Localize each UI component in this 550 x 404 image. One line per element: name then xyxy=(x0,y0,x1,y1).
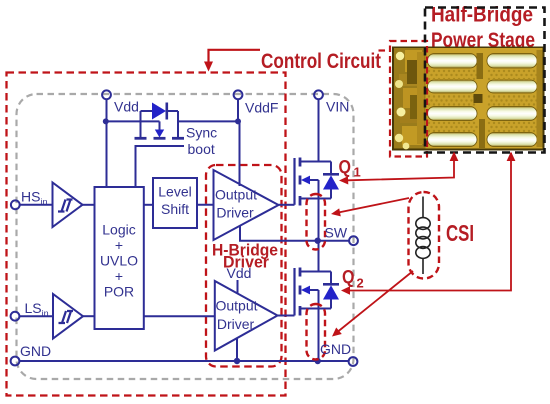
terminal SW xyxy=(349,236,358,245)
svg-text:+: + xyxy=(115,237,123,253)
red dashed H-Bridge Driver box xyxy=(206,165,282,367)
svg-text:Level: Level xyxy=(158,184,191,200)
block U1 Logic+UVLO+POR xyxy=(95,187,144,329)
svg-text:Control Circuit: Control Circuit xyxy=(261,50,381,73)
wire HSin xyxy=(19,204,53,206)
svg-text:2: 2 xyxy=(357,276,364,291)
transistor sync boot MOSFET xyxy=(135,121,185,187)
node SW junction xyxy=(315,238,321,244)
arrow control circuit pointer xyxy=(209,50,261,62)
red dashed CSI box xyxy=(409,192,440,279)
svg-text:Vdd: Vdd xyxy=(114,99,139,115)
terminal VIN xyxy=(314,90,323,99)
red dashed sense box Q1 source xyxy=(307,194,326,250)
svg-text:CSI: CSI xyxy=(446,220,474,246)
transistor Q1 MOSFET xyxy=(279,99,340,241)
wire LS buffer to logic xyxy=(83,315,95,317)
left die strip xyxy=(394,48,426,149)
wire Vdd rail xyxy=(106,120,160,122)
wire logic to level shift xyxy=(144,204,153,206)
svg-text:+: + xyxy=(115,268,123,284)
svg-text:Output: Output xyxy=(215,187,257,203)
photo half-bridge die xyxy=(392,47,545,151)
op-amp bottom output driver xyxy=(215,281,278,351)
terminal HSin xyxy=(11,200,20,209)
wire VddF to top driver xyxy=(239,121,241,186)
svg-text:boot: boot xyxy=(188,141,215,157)
node Vdd junction xyxy=(103,118,109,124)
svg-text:UVLO: UVLO xyxy=(100,253,138,269)
svg-text:Logic: Logic xyxy=(102,222,135,238)
svg-text:Vdd: Vdd xyxy=(227,265,252,281)
buffer HS schmitt trigger xyxy=(53,183,83,228)
wire VddF rail xyxy=(178,120,238,122)
black dashed box power stage xyxy=(425,8,545,153)
wire top driver bottom to SW xyxy=(240,226,349,241)
svg-text:GND: GND xyxy=(320,341,351,357)
terminal GND left xyxy=(11,357,20,366)
svg-text:Driver: Driver xyxy=(217,316,255,332)
node Q2 gnd junction xyxy=(315,358,321,364)
red dashed Control Circuit box xyxy=(7,73,286,396)
terminal VddF xyxy=(234,90,243,99)
wire GND rail xyxy=(19,360,349,362)
wire Vdd drop to logic xyxy=(106,99,108,188)
svg-text:Shift: Shift xyxy=(161,201,189,217)
svg-text:Driver: Driver xyxy=(216,205,254,221)
buffer LS schmitt trigger xyxy=(53,294,83,339)
red line CSI to Q1 sense xyxy=(339,198,409,212)
wire vdd into bottom driver xyxy=(237,280,239,294)
red line photo to Q1 xyxy=(348,153,454,180)
svg-text:VIN: VIN xyxy=(326,99,349,115)
wire HS buffer to logic xyxy=(83,204,95,206)
wire red link dash xyxy=(379,49,386,51)
svg-text:POR: POR xyxy=(104,284,134,300)
node VddF junction xyxy=(235,118,241,124)
wire logic to bottom driver xyxy=(144,315,215,317)
terminal Vdd xyxy=(102,90,111,99)
svg-text:VddF: VddF xyxy=(245,100,278,116)
node driver gnd junction xyxy=(234,358,240,364)
op-amp top output driver xyxy=(214,170,279,240)
inductor CSI xyxy=(416,197,430,275)
red dashed sense box Q2 source xyxy=(307,304,326,360)
wire VddF drop xyxy=(237,99,239,122)
red line photo to Q2 xyxy=(350,153,511,291)
terminal GND right xyxy=(349,357,358,366)
wire level shift to top driver xyxy=(197,204,214,206)
svg-text:1: 1 xyxy=(354,165,361,180)
red dashed box around control die xyxy=(390,41,427,157)
svg-text:Output: Output xyxy=(215,298,257,314)
transistor Q2 MOSFET xyxy=(278,241,340,361)
wire LSin xyxy=(19,315,54,317)
svg-text:GND: GND xyxy=(20,343,51,359)
block level shift xyxy=(153,178,197,228)
wire bottom driver to gnd rail xyxy=(236,338,238,361)
svg-text:SW: SW xyxy=(325,225,348,241)
red line CSI to Q2 sense xyxy=(338,271,413,332)
terminal LSin xyxy=(11,312,20,321)
svg-text:Sync: Sync xyxy=(186,125,217,141)
svg-text:Q: Q xyxy=(339,157,352,177)
svg-text:Q: Q xyxy=(342,267,355,287)
diode D1 sync boot xyxy=(141,103,179,138)
gray dashed IC boundary box xyxy=(17,94,354,379)
center divider marks xyxy=(477,53,484,79)
